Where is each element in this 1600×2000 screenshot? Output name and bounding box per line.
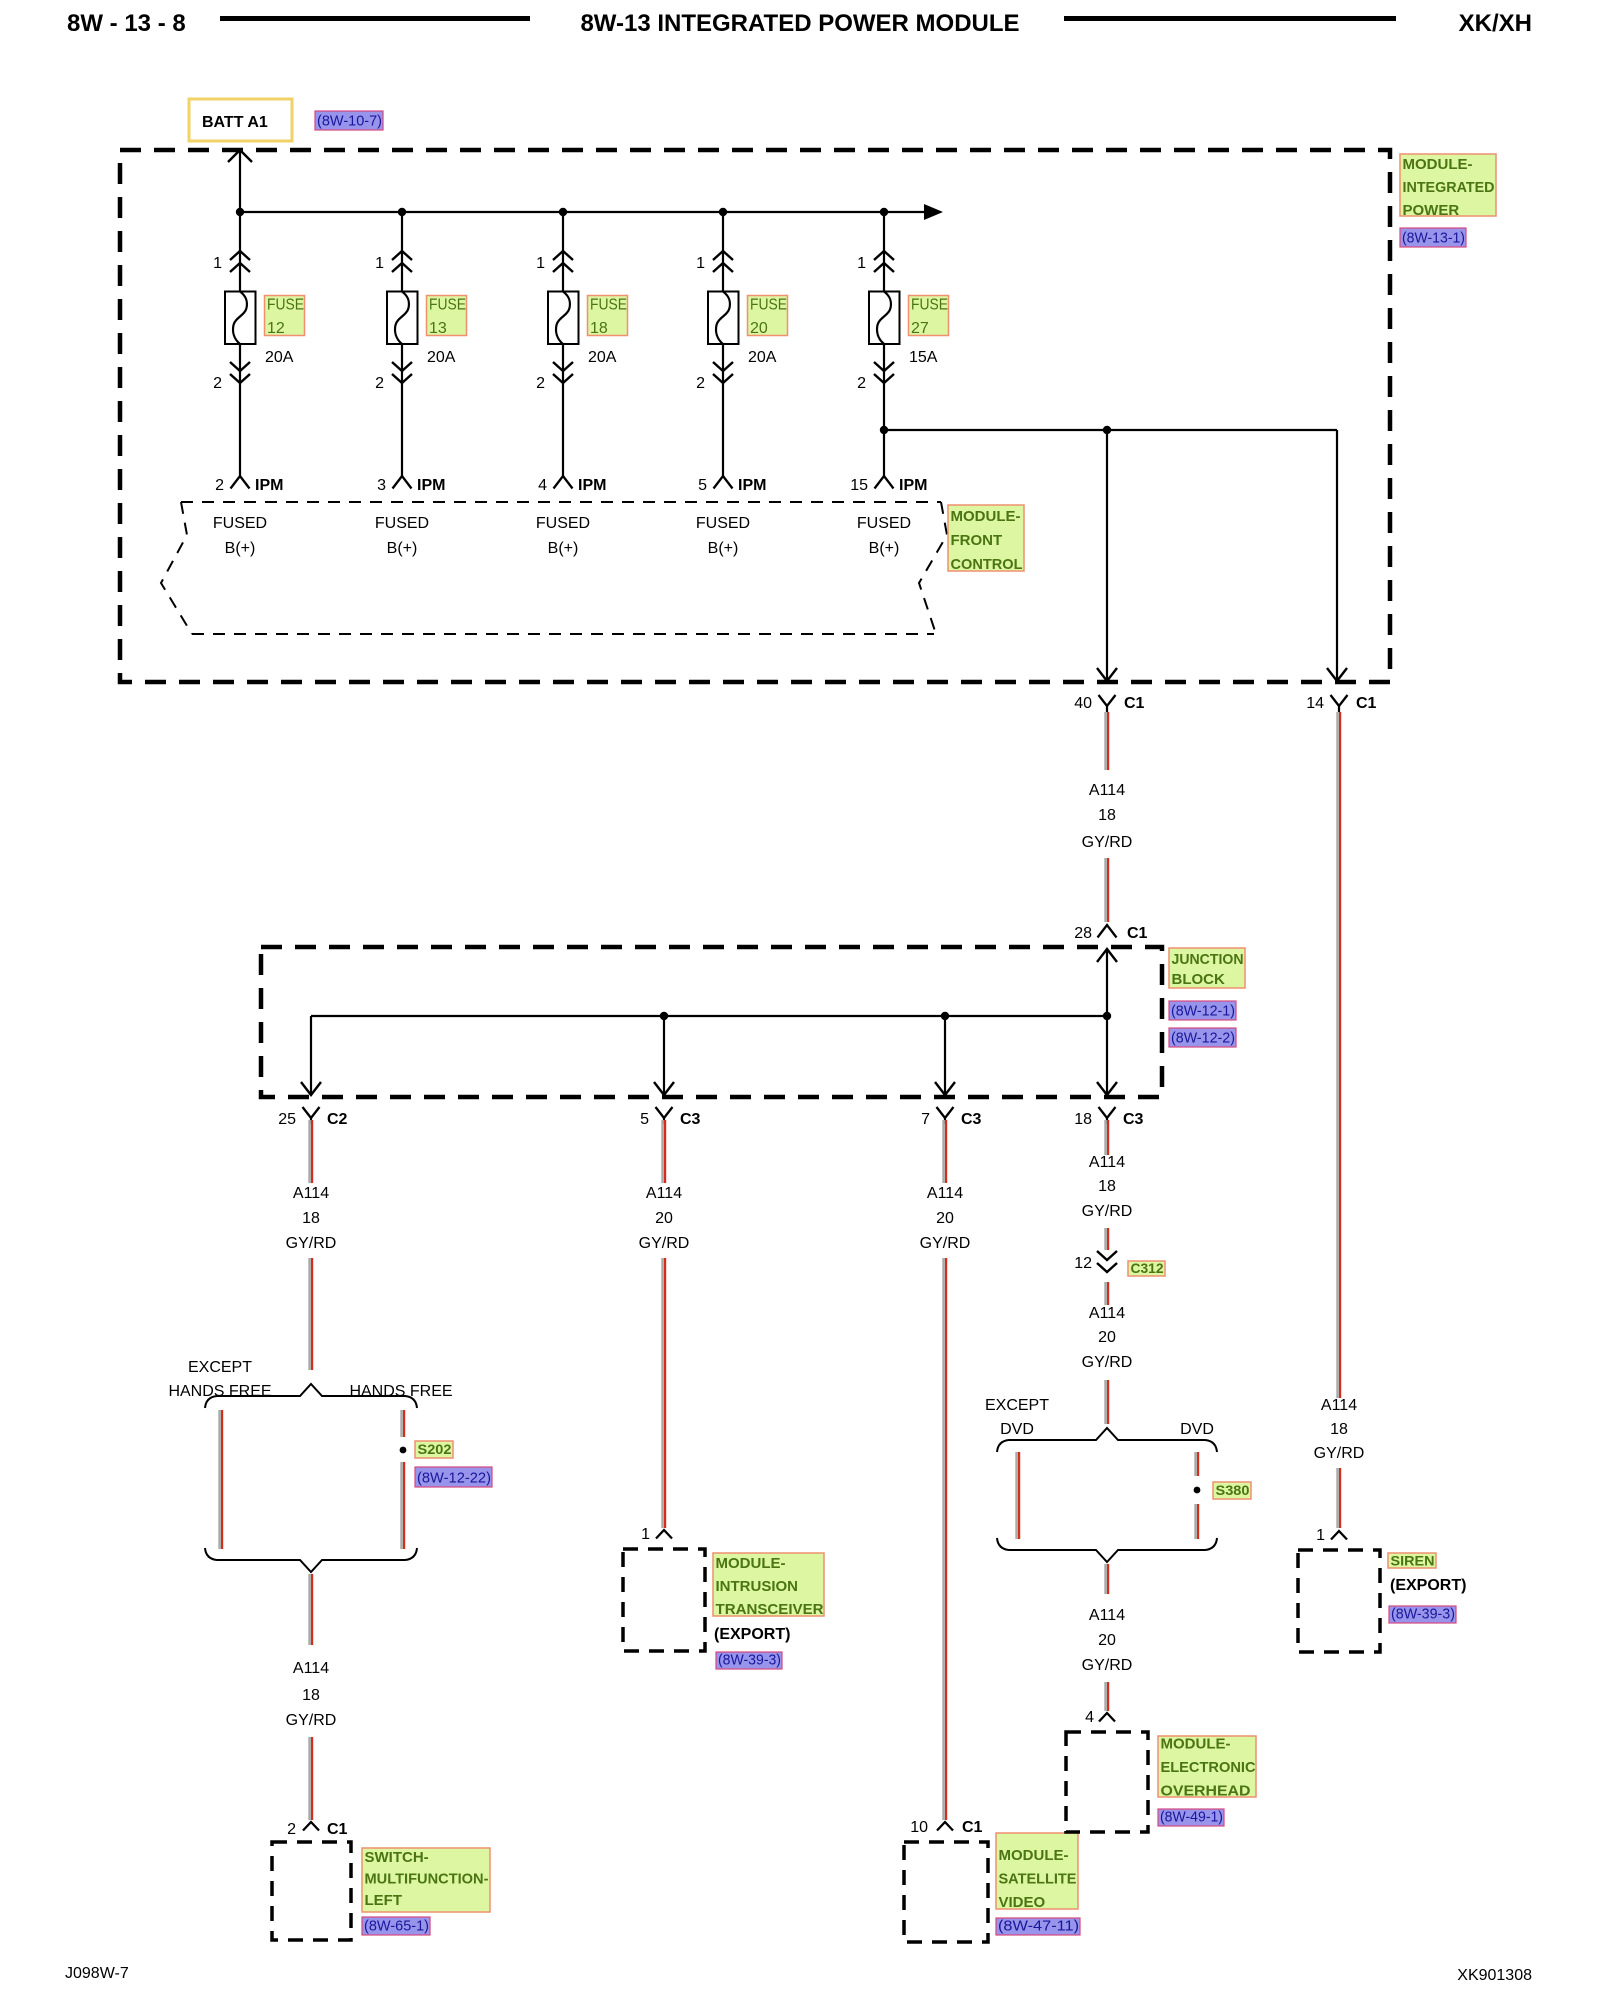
svg-text:B(+): B(+) xyxy=(225,540,256,557)
svg-text:IPM: IPM xyxy=(417,477,445,494)
svg-text:GY/RD: GY/RD xyxy=(1082,1203,1133,1220)
svg-text:2: 2 xyxy=(536,375,545,392)
svg-text:12: 12 xyxy=(1074,1255,1092,1272)
svg-text:C1: C1 xyxy=(1356,695,1377,712)
svg-text:C312: C312 xyxy=(1131,1260,1164,1276)
svg-text:SWITCH-: SWITCH- xyxy=(365,1849,429,1866)
svg-text:B(+): B(+) xyxy=(548,540,579,557)
svg-text:MODULE-: MODULE- xyxy=(1403,156,1473,173)
svg-text:INTRUSION: INTRUSION xyxy=(716,1578,799,1595)
svg-text:A114: A114 xyxy=(1089,1607,1125,1624)
svg-text:FUSED: FUSED xyxy=(213,515,267,532)
svg-text:FUSE: FUSE xyxy=(267,297,304,314)
svg-text:GY/RD: GY/RD xyxy=(1082,834,1133,851)
svg-text:GY/RD: GY/RD xyxy=(1082,1354,1133,1371)
svg-text:1: 1 xyxy=(375,255,384,272)
svg-text:BATT A1: BATT A1 xyxy=(202,114,268,131)
svg-text:1: 1 xyxy=(641,1526,650,1543)
svg-text:MODULE-: MODULE- xyxy=(999,1847,1069,1864)
svg-text:25: 25 xyxy=(278,1111,296,1128)
svg-text:3: 3 xyxy=(377,477,386,494)
svg-text:A114: A114 xyxy=(293,1660,329,1677)
svg-text:C3: C3 xyxy=(680,1111,701,1128)
svg-text:2: 2 xyxy=(857,375,866,392)
svg-text:FUSE: FUSE xyxy=(429,297,466,314)
svg-text:20A: 20A xyxy=(588,349,617,366)
svg-text:C1: C1 xyxy=(327,1821,348,1838)
svg-text:A114: A114 xyxy=(1089,1305,1125,1322)
svg-text:10: 10 xyxy=(910,1819,928,1836)
svg-text:8W - 13 - 8: 8W - 13 - 8 xyxy=(67,10,186,37)
svg-text:2: 2 xyxy=(215,477,224,494)
svg-text:IPM: IPM xyxy=(578,477,606,494)
svg-text:A114: A114 xyxy=(1089,782,1125,799)
svg-text:SATELLITE: SATELLITE xyxy=(999,1871,1077,1888)
svg-text:4: 4 xyxy=(1085,1709,1094,1726)
svg-text:FUSED: FUSED xyxy=(696,515,750,532)
svg-text:20: 20 xyxy=(655,1210,673,1227)
svg-text:(8W-13-1): (8W-13-1) xyxy=(1402,230,1465,247)
svg-text:MULTIFUNCTION-: MULTIFUNCTION- xyxy=(365,1871,489,1888)
svg-text:28: 28 xyxy=(1074,925,1092,942)
svg-text:5: 5 xyxy=(698,477,707,494)
svg-text:8W-13 INTEGRATED POWER MODULE: 8W-13 INTEGRATED POWER MODULE xyxy=(580,10,1019,37)
svg-text:BLOCK: BLOCK xyxy=(1172,971,1225,988)
svg-text:C1: C1 xyxy=(962,1819,983,1836)
svg-text:GY/RD: GY/RD xyxy=(1082,1657,1133,1674)
svg-text:18: 18 xyxy=(1074,1111,1092,1128)
svg-text:18: 18 xyxy=(1098,807,1116,824)
svg-text:18: 18 xyxy=(1098,1178,1116,1195)
svg-text:(8W-47-11): (8W-47-11) xyxy=(998,1918,1079,1935)
svg-text:HANDS FREE: HANDS FREE xyxy=(349,1383,452,1400)
svg-text:20: 20 xyxy=(936,1210,954,1227)
svg-text:FUSE: FUSE xyxy=(750,297,787,314)
svg-text:(EXPORT): (EXPORT) xyxy=(1390,1577,1466,1594)
svg-text:(8W-65-1): (8W-65-1) xyxy=(364,1918,429,1935)
svg-text:A114: A114 xyxy=(646,1185,682,1202)
svg-text:C3: C3 xyxy=(1123,1111,1144,1128)
svg-text:(8W-12-2): (8W-12-2) xyxy=(1171,1030,1235,1047)
svg-text:B(+): B(+) xyxy=(869,540,900,557)
svg-text:C3: C3 xyxy=(961,1111,982,1128)
svg-text:IPM: IPM xyxy=(255,477,283,494)
svg-text:GY/RD: GY/RD xyxy=(920,1235,971,1252)
svg-text:VIDEO: VIDEO xyxy=(999,1894,1046,1911)
svg-text:18: 18 xyxy=(1330,1421,1348,1438)
svg-text:ELECTRONIC: ELECTRONIC xyxy=(1161,1759,1256,1776)
svg-text:5: 5 xyxy=(640,1111,649,1128)
svg-text:20A: 20A xyxy=(748,349,777,366)
svg-text:HANDS FREE: HANDS FREE xyxy=(168,1383,271,1400)
svg-text:LEFT: LEFT xyxy=(365,1892,403,1909)
svg-text:18: 18 xyxy=(590,320,608,337)
svg-text:POWER: POWER xyxy=(1403,202,1460,219)
svg-text:INTEGRATED: INTEGRATED xyxy=(1403,179,1495,196)
svg-text:MODULE-: MODULE- xyxy=(1161,1736,1231,1753)
svg-text:CONTROL: CONTROL xyxy=(951,556,1023,573)
svg-text:FUSED: FUSED xyxy=(857,515,911,532)
svg-text:1: 1 xyxy=(536,255,545,272)
svg-text:A114: A114 xyxy=(927,1185,963,1202)
svg-text:20A: 20A xyxy=(427,349,456,366)
svg-text:C1: C1 xyxy=(1124,695,1145,712)
svg-text:15A: 15A xyxy=(909,349,938,366)
svg-text:XK/XH: XK/XH xyxy=(1459,10,1532,37)
svg-text:1: 1 xyxy=(1316,1527,1325,1544)
svg-text:40: 40 xyxy=(1074,695,1092,712)
svg-text:20: 20 xyxy=(1098,1632,1116,1649)
svg-text:B(+): B(+) xyxy=(387,540,418,557)
svg-text:FUSE: FUSE xyxy=(911,297,948,314)
svg-text:1: 1 xyxy=(857,255,866,272)
svg-text:2: 2 xyxy=(213,375,222,392)
svg-text:IPM: IPM xyxy=(899,477,927,494)
svg-text:(8W-10-7): (8W-10-7) xyxy=(317,113,382,130)
svg-text:1: 1 xyxy=(213,255,222,272)
svg-text:20: 20 xyxy=(1098,1329,1116,1346)
svg-text:2: 2 xyxy=(375,375,384,392)
svg-text:2: 2 xyxy=(287,1821,296,1838)
svg-text:13: 13 xyxy=(429,320,447,337)
svg-text:A114: A114 xyxy=(293,1185,329,1202)
svg-text:(EXPORT): (EXPORT) xyxy=(714,1626,790,1643)
svg-text:A114: A114 xyxy=(1089,1154,1125,1171)
svg-text:J098W-7: J098W-7 xyxy=(65,1965,129,1982)
svg-text:(8W-12-22): (8W-12-22) xyxy=(417,1470,491,1487)
svg-text:FUSED: FUSED xyxy=(536,515,590,532)
svg-text:S380: S380 xyxy=(1216,1482,1250,1498)
svg-text:C1: C1 xyxy=(1127,925,1148,942)
svg-text:7: 7 xyxy=(921,1111,930,1128)
svg-text:SIREN: SIREN xyxy=(1391,1553,1435,1569)
svg-text:27: 27 xyxy=(911,320,929,337)
svg-text:MODULE-: MODULE- xyxy=(716,1555,786,1572)
svg-text:(8W-12-1): (8W-12-1) xyxy=(1171,1003,1235,1020)
svg-text:(8W-49-1): (8W-49-1) xyxy=(1160,1809,1223,1826)
svg-text:4: 4 xyxy=(538,477,547,494)
svg-text:FRONT: FRONT xyxy=(951,532,1003,549)
svg-text:1: 1 xyxy=(696,255,705,272)
svg-text:IPM: IPM xyxy=(738,477,766,494)
svg-text:MODULE-: MODULE- xyxy=(951,508,1021,525)
svg-text:GY/RD: GY/RD xyxy=(286,1235,337,1252)
svg-text:18: 18 xyxy=(302,1210,320,1227)
svg-text:18: 18 xyxy=(302,1687,320,1704)
svg-text:GY/RD: GY/RD xyxy=(639,1235,690,1252)
svg-text:A114: A114 xyxy=(1321,1397,1357,1414)
svg-text:EXCEPT: EXCEPT xyxy=(188,1359,252,1376)
svg-text:20: 20 xyxy=(750,320,768,337)
svg-text:FUSED: FUSED xyxy=(375,515,429,532)
svg-text:(8W-39-3): (8W-39-3) xyxy=(718,1652,781,1669)
svg-text:B(+): B(+) xyxy=(708,540,739,557)
svg-text:S202: S202 xyxy=(418,1441,452,1457)
svg-text:12: 12 xyxy=(267,320,285,337)
svg-text:EXCEPT: EXCEPT xyxy=(985,1397,1049,1414)
svg-text:TRANSCEIVER: TRANSCEIVER xyxy=(716,1601,824,1618)
svg-text:14: 14 xyxy=(1306,695,1324,712)
svg-text:C2: C2 xyxy=(327,1111,348,1128)
svg-text:DVD: DVD xyxy=(1180,1421,1214,1438)
svg-text:15: 15 xyxy=(850,477,868,494)
svg-text:FUSE: FUSE xyxy=(590,297,627,314)
svg-text:DVD: DVD xyxy=(1000,1421,1034,1438)
svg-text:(8W-39-3): (8W-39-3) xyxy=(1391,1606,1455,1623)
svg-text:JUNCTION: JUNCTION xyxy=(1172,951,1244,968)
svg-text:GY/RD: GY/RD xyxy=(1314,1445,1365,1462)
svg-text:2: 2 xyxy=(696,375,705,392)
svg-text:XK901308: XK901308 xyxy=(1457,1967,1532,1984)
svg-text:OVERHEAD: OVERHEAD xyxy=(1161,1783,1251,1800)
svg-text:20A: 20A xyxy=(265,349,294,366)
svg-text:GY/RD: GY/RD xyxy=(286,1712,337,1729)
